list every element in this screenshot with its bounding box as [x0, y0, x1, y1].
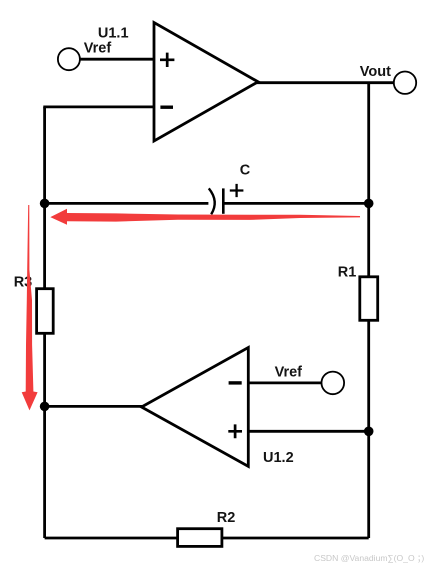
svg-text:CSDN @Vanadium∑(O_O ；): CSDN @Vanadium∑(O_O ；) [314, 553, 424, 563]
svg-text:C: C [240, 163, 251, 179]
svg-text:Vout: Vout [360, 64, 391, 80]
svg-text:Vref: Vref [275, 364, 303, 380]
svg-text:U1.1: U1.1 [98, 25, 129, 41]
svg-text:R2: R2 [217, 510, 236, 526]
svg-text:R1: R1 [338, 265, 357, 281]
svg-text:Vref: Vref [84, 41, 112, 57]
svg-text:U1.2: U1.2 [263, 450, 294, 466]
